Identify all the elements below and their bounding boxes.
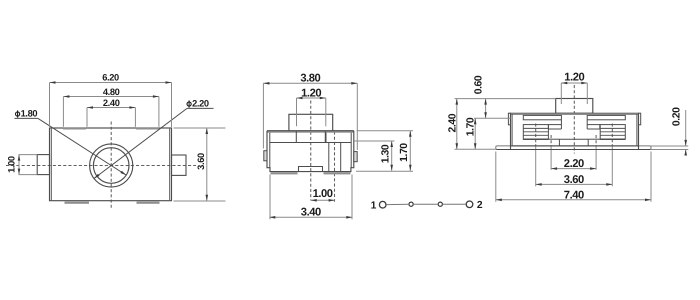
svg-text:0.60: 0.60	[474, 75, 485, 94]
svg-text:6.20: 6.20	[102, 73, 119, 83]
svg-text:1.20: 1.20	[301, 87, 321, 99]
svg-text:1.00: 1.00	[313, 188, 333, 200]
svg-text:3.60: 3.60	[196, 153, 206, 170]
svg-text:0.20: 0.20	[671, 107, 682, 126]
svg-text:2.20: 2.20	[564, 158, 584, 170]
svg-text:1.30: 1.30	[380, 144, 391, 163]
svg-text:1.00: 1.00	[6, 156, 16, 173]
svg-text:1.20: 1.20	[564, 72, 584, 84]
svg-text:1.70: 1.70	[399, 143, 410, 162]
svg-text:2.40: 2.40	[103, 98, 120, 108]
svg-text:2: 2	[477, 200, 483, 211]
svg-text:3.80: 3.80	[300, 72, 320, 84]
svg-text:2.20: 2.20	[192, 99, 209, 109]
svg-text:1: 1	[371, 200, 377, 211]
svg-text:3.40: 3.40	[301, 207, 321, 219]
svg-text:7.40: 7.40	[564, 189, 584, 201]
svg-text:3.60: 3.60	[564, 174, 584, 186]
svg-text:2.40: 2.40	[447, 113, 458, 132]
svg-text:4.80: 4.80	[103, 87, 120, 97]
svg-text:1.70: 1.70	[466, 117, 477, 136]
svg-text:1.80: 1.80	[21, 109, 38, 119]
